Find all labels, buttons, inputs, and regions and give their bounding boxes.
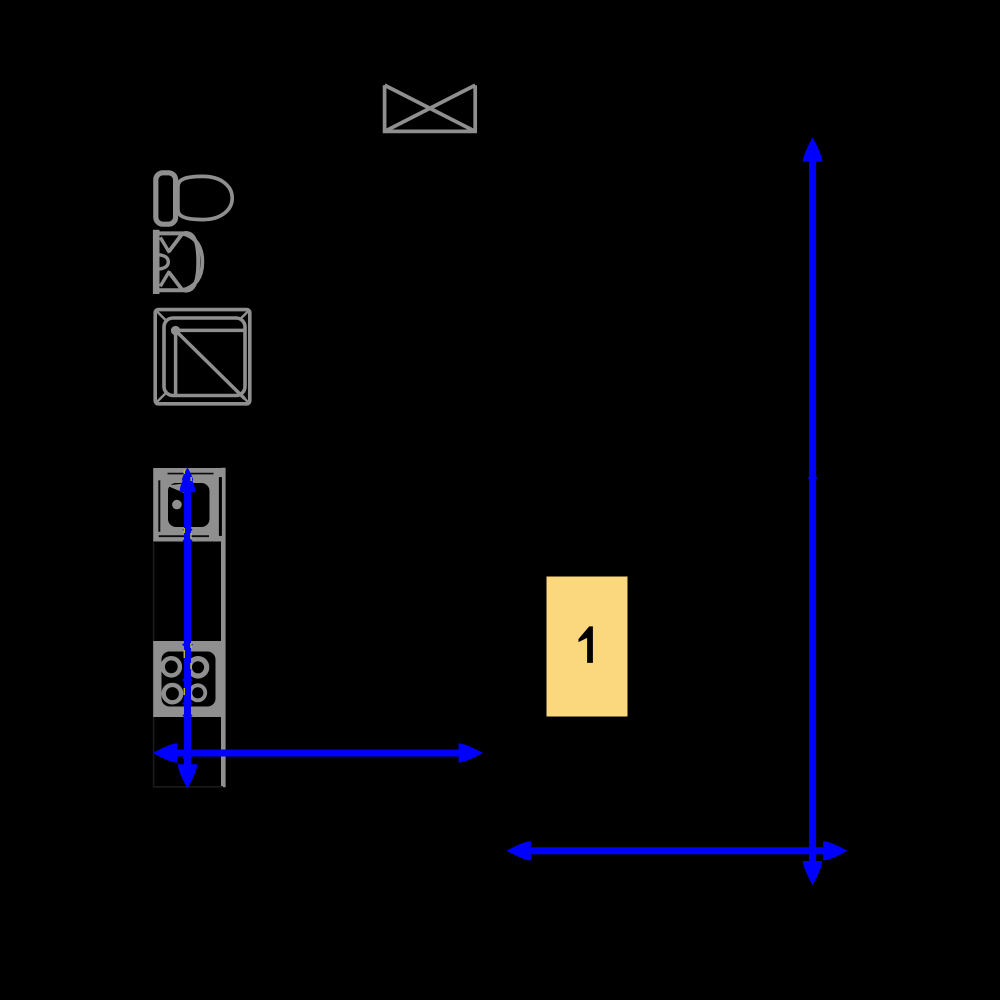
kitchen counter outline [154, 468, 224, 788]
shower tray [155, 310, 250, 404]
window symbol [385, 85, 476, 131]
mini arrow pair bulges [182, 525, 192, 534]
dimension line right vertical [803, 137, 822, 885]
dimension line kitchen vertical [178, 467, 197, 789]
kitchen sink unit [153, 468, 222, 542]
stove unit [153, 641, 225, 717]
room label 1 [547, 577, 628, 717]
dimension line bottom horizontal [507, 841, 848, 860]
yellow dash artifacts [184, 470, 192, 695]
washbasin [154, 230, 202, 294]
dimension line kitchen horizontal [153, 743, 483, 762]
mini arrow pair bulge [808, 474, 818, 483]
digit 1 [579, 626, 593, 663]
toilet [156, 173, 232, 224]
